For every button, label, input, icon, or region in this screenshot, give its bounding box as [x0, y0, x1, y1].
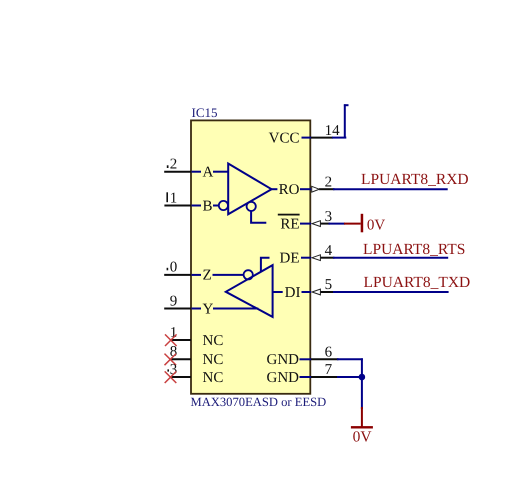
pin 13 (NC) of IC15: [171, 370, 224, 386]
svg-text:Z: Z: [203, 268, 212, 284]
svg-text:NC: NC: [203, 352, 224, 368]
wire net LPUART8_RTS: [333, 257, 448, 259]
svg-text:B: B: [203, 198, 213, 214]
svg-text:MAX3070EASD or EESD: MAX3070EASD or EESD: [191, 395, 327, 409]
pin 10 (Z) of IC15: [164, 268, 211, 284]
receiver inverting input B internal lead: [213, 205, 219, 207]
svg-text:DE: DE: [280, 251, 300, 267]
svg-text:3: 3: [170, 362, 178, 378]
no-ERC marker X on pin 1: [165, 334, 177, 346]
pin 11 (B) of IC15: [164, 198, 212, 214]
receiver input B inversion bubble: [219, 201, 228, 210]
svg-text:1: 1: [170, 190, 178, 206]
driver buffer triangle inside IC15: [226, 265, 273, 317]
driver output Z inversion bubble: [244, 270, 253, 279]
receiver output lead to RO: [272, 188, 278, 190]
svg-text:5: 5: [325, 277, 333, 293]
svg-text:0V: 0V: [367, 217, 386, 233]
driver output Y internal lead: [213, 308, 258, 310]
pin 3 (RE) of IC15: [278, 214, 330, 233]
wire pin 3 to 0V: [329, 223, 346, 225]
driver enable lead to DE: [261, 258, 270, 272]
svg-text:VCC: VCC: [269, 130, 300, 146]
svg-text:A: A: [203, 165, 214, 181]
svg-text:LPUART8_TXD: LPUART8_TXD: [364, 274, 471, 291]
svg-text:RE: RE: [280, 216, 299, 232]
driver inverted output Z internal lead: [213, 274, 244, 276]
wire net LPUART8_RXD: [333, 188, 448, 190]
svg-text:GND: GND: [267, 370, 300, 386]
power port 0V on pin 3: [344, 214, 385, 234]
svg-text:3: 3: [325, 209, 333, 225]
receiver input A internal lead: [213, 171, 229, 173]
driver input lead to DI: [273, 291, 283, 293]
receiver enable lead to RE: [251, 211, 266, 223]
no-ERC marker X on pin 8: [165, 354, 177, 366]
IC IC15 body: [191, 120, 310, 393]
junction dot on ground bus: [359, 374, 366, 381]
pin 13 number (leading 1 clipped): [167, 362, 177, 378]
svg-text:0V: 0V: [353, 429, 373, 446]
wire VCC net to supply: [332, 104, 349, 138]
wire pin 6 to ground bus: [337, 358, 363, 409]
svg-text:Y: Y: [203, 301, 214, 317]
wire net LPUART8_TXD: [333, 291, 449, 293]
svg-text:NC: NC: [203, 370, 224, 386]
power port 0V (ground) at bottom: [351, 407, 373, 446]
svg-text:8: 8: [170, 344, 178, 360]
pin 6 (GND) of IC15: [267, 352, 339, 368]
pin 5 (DI) of IC15: [285, 285, 335, 301]
svg-text:RO: RO: [279, 182, 300, 198]
pin 4 (DE) of IC15: [280, 251, 335, 267]
pin 12 number (leading 1 clipped): [167, 157, 178, 173]
svg-text:6: 6: [325, 345, 333, 361]
svg-text:0: 0: [170, 260, 178, 276]
receiver enable bubble: [247, 202, 256, 211]
pin 9 (Y) of IC15: [164, 301, 213, 317]
svg-text:7: 7: [325, 362, 333, 378]
no-ERC marker X on pin 13: [165, 371, 177, 383]
wire pin 7 to ground bus: [337, 376, 361, 378]
svg-text:DI: DI: [285, 285, 301, 301]
svg-text:4: 4: [325, 243, 333, 259]
pin 11 number (leading 1 partially clipped): [166, 190, 177, 206]
svg-text:2: 2: [325, 174, 333, 190]
svg-text:2: 2: [170, 157, 178, 173]
pin 12 (A) of IC15: [164, 165, 213, 181]
pin 7 (GND) of IC15: [267, 370, 339, 386]
receiver buffer triangle inside IC15: [228, 164, 271, 215]
svg-text:14: 14: [325, 123, 341, 139]
pin 1 (NC) of IC15: [171, 333, 224, 349]
svg-text:LPUART8_RXD: LPUART8_RXD: [361, 171, 469, 188]
svg-text:NC: NC: [203, 333, 224, 349]
svg-text:9: 9: [170, 293, 178, 309]
svg-text:LPUART8_RTS: LPUART8_RTS: [363, 241, 465, 258]
pin 14 (VCC) of IC15: [269, 130, 333, 146]
pin 8 (NC) of IC15: [171, 352, 224, 368]
pin 2 (RO) of IC15: [279, 182, 335, 198]
svg-text:IC15: IC15: [192, 105, 218, 120]
svg-text:GND: GND: [267, 352, 300, 368]
pin 10 number (leading 1 clipped): [167, 260, 178, 276]
